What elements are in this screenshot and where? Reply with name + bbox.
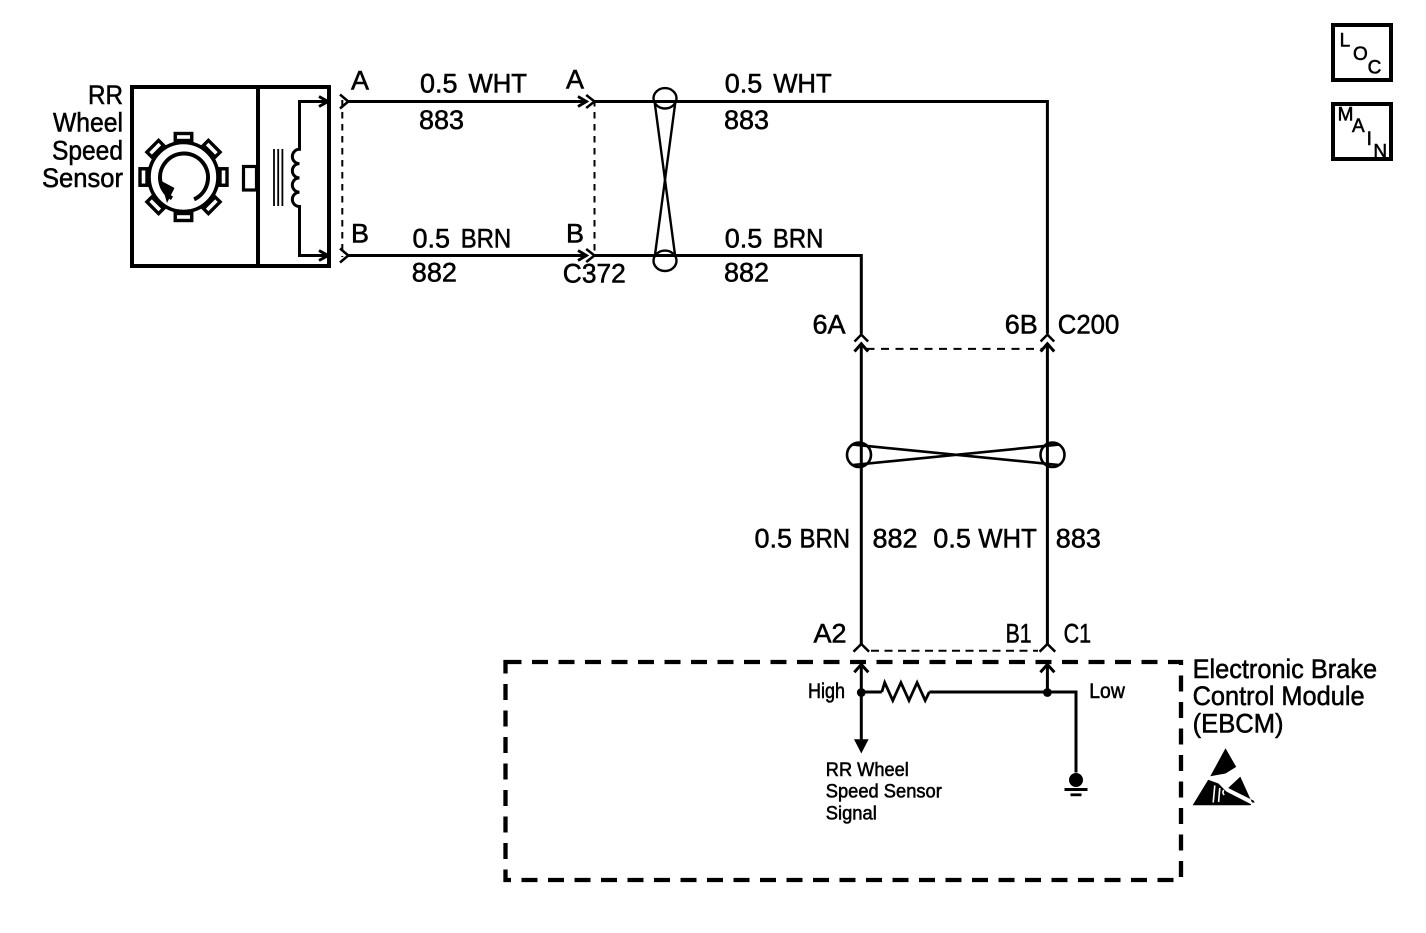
svg-text:A: A (566, 65, 584, 95)
EBCM dashed box (506, 662, 1182, 880)
svg-text:WHT: WHT (469, 69, 528, 99)
svg-text:Sensor: Sensor (42, 163, 123, 193)
wire 882 segment 1 (0.5 BRN) (348, 254, 585, 257)
label Electronic Brake Control Module (EBCM) (1193, 654, 1378, 738)
chevron pin A at sensor connector (340, 95, 348, 109)
twisted pair symbol (horizontal, between vertical wires) (847, 443, 1065, 467)
svg-text:L: L (1340, 30, 1351, 51)
svg-text:C: C (1368, 57, 1382, 78)
MAIN reference box (1333, 104, 1391, 159)
junction dot Low (1043, 688, 1052, 697)
wire 883 segment 2: right then down to C200 (595, 102, 1048, 334)
arrow at C372 wire A (578, 97, 587, 107)
wire 883 vertical segment to EBCM (1046, 344, 1049, 644)
ESD hand fingers (white cuts) (1213, 786, 1224, 803)
signal arrow down (860, 693, 863, 741)
connector C372 dashed line (594, 100, 596, 257)
chevron pin B at sensor connector (340, 249, 348, 263)
sensor box divider (256, 85, 260, 268)
svg-text:A: A (351, 66, 369, 96)
dashed line between A2 and B1 (871, 650, 1038, 652)
C200 dashed line between 6A and 6B (867, 348, 1043, 350)
svg-text:883: 883 (1056, 524, 1101, 554)
svg-text:I: I (1367, 129, 1372, 150)
svg-text:Electronic Brake: Electronic Brake (1193, 654, 1378, 684)
arrow at C372 wire B (578, 251, 587, 261)
svg-text:882: 882 (724, 258, 769, 288)
chevron B at C372 (586, 249, 594, 262)
svg-text:0.5: 0.5 (725, 224, 763, 254)
wire resistor to Low side and down to ground (929, 692, 1076, 773)
sensor pickup (244, 167, 257, 191)
sensor connector dashed line (341, 100, 343, 257)
label RR Wheel Speed Sensor (42, 80, 123, 193)
wire junction to resistor (861, 691, 882, 694)
svg-text:Speed: Speed (52, 135, 123, 165)
twisted pair symbol (vertical, between A and B wires) (654, 88, 677, 271)
wire 882 vertical segment to EBCM (860, 344, 863, 644)
ground line 2 (1071, 793, 1082, 796)
LOC reference box (1333, 25, 1391, 80)
svg-text:0.5: 0.5 (413, 224, 451, 254)
wire 882 segment 2: right then down to C200 (595, 256, 862, 334)
connector C200: pin 6A (855, 335, 869, 342)
svg-text:WHT: WHT (978, 524, 1037, 554)
svg-text:Low: Low (1089, 680, 1125, 703)
connector C200: pin 6B (1041, 335, 1055, 342)
svg-text:C200: C200 (1058, 310, 1120, 340)
junction dot High (857, 688, 866, 697)
ground line 1 (1065, 788, 1088, 791)
ESD sensitivity symbol (1193, 748, 1255, 805)
svg-text:883: 883 (419, 105, 464, 135)
svg-text:O: O (1353, 44, 1368, 65)
sensor coil (292, 102, 327, 256)
svg-text:Speed Sensor: Speed Sensor (826, 781, 942, 803)
connector pin B1/C1 chevron (1040, 644, 1056, 652)
svg-text:High: High (808, 680, 845, 703)
svg-text:6A: 6A (812, 310, 845, 340)
tone wheel (149, 143, 218, 212)
arrow up pin 6A (855, 344, 869, 352)
svg-text:C372: C372 (563, 259, 626, 289)
svg-text:Control Module: Control Module (1193, 681, 1365, 711)
wire from A2 arrow down to junction (860, 665, 863, 693)
svg-text:WHT: WHT (773, 69, 832, 99)
wheel speed sensor box (132, 87, 329, 266)
connector pin A2 chevron (854, 644, 870, 652)
chevron A at C372 (586, 95, 594, 108)
svg-text:B: B (351, 219, 369, 249)
svg-text:883: 883 (724, 105, 769, 135)
arrow up into EBCM (High side) (854, 665, 868, 673)
arrow up pin 6B (1041, 344, 1055, 352)
wire from C1 arrow down to junction (1046, 665, 1049, 693)
svg-text:N: N (1373, 141, 1387, 162)
svg-text:B1: B1 (1006, 618, 1032, 648)
svg-text:(EBCM): (EBCM) (1193, 708, 1284, 738)
svg-text:BRN: BRN (800, 524, 851, 554)
svg-text:B: B (566, 219, 584, 249)
svg-text:BRN: BRN (461, 224, 512, 254)
tone wheel teeth (140, 134, 227, 221)
svg-text:0.5: 0.5 (420, 69, 458, 99)
wire 883 segment 1 (0.5 WHT) (348, 100, 585, 103)
svg-text:RR Wheel: RR Wheel (826, 759, 909, 781)
ground symbol circle (1069, 773, 1083, 787)
svg-text:A2: A2 (813, 618, 846, 648)
svg-text:BRN: BRN (773, 224, 824, 254)
svg-text:Wheel: Wheel (53, 108, 123, 138)
resistor zigzag (882, 683, 930, 701)
sensor core lines (273, 149, 275, 206)
arrow at sensor terminal A (319, 97, 328, 107)
svg-text:0.5: 0.5 (933, 524, 971, 554)
svg-text:A: A (1352, 116, 1365, 137)
svg-text:RR: RR (88, 80, 123, 110)
svg-text:Signal: Signal (826, 802, 877, 824)
arrow up into EBCM (Low side) (1040, 665, 1054, 673)
svg-text:0.5: 0.5 (725, 69, 763, 99)
svg-text:C1: C1 (1064, 618, 1092, 648)
rotation arrow inside tone wheel (160, 154, 208, 200)
svg-text:0.5: 0.5 (755, 524, 793, 554)
svg-text:882: 882 (412, 258, 457, 288)
arrow at sensor terminal B (319, 251, 328, 261)
label RR Wheel Speed Sensor Signal (826, 759, 942, 825)
svg-text:882: 882 (873, 524, 918, 554)
svg-text:6B: 6B (1005, 310, 1038, 340)
